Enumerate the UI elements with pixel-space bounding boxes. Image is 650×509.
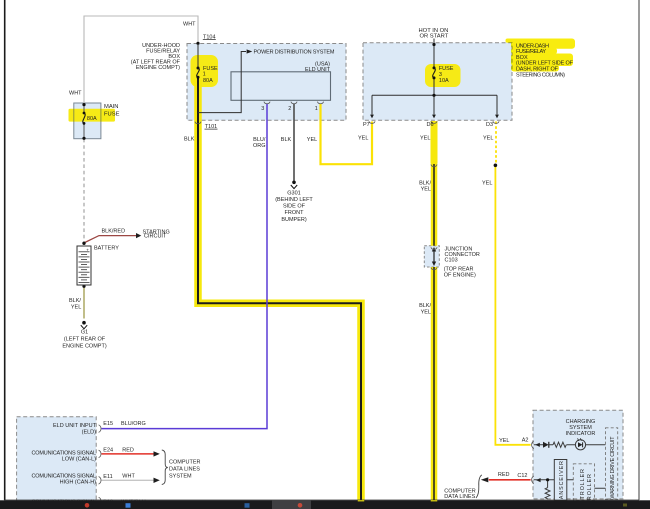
svg-text:SIDE OF: SIDE OF bbox=[283, 204, 306, 210]
svg-text:YEL: YEL bbox=[421, 309, 431, 315]
svg-text:COMUNICATIONS SIGNAL: COMUNICATIONS SIGNAL bbox=[32, 473, 97, 479]
svg-text:YEL: YEL bbox=[358, 136, 368, 142]
svg-text:DATA LINES: DATA LINES bbox=[444, 494, 475, 500]
svg-text:BLU/ORG: BLU/ORG bbox=[121, 421, 146, 427]
svg-text:BUMPER): BUMPER) bbox=[281, 217, 307, 223]
svg-text:(ELD): (ELD) bbox=[82, 429, 97, 435]
svg-text:BLK/: BLK/ bbox=[69, 298, 81, 304]
svg-text:YEL: YEL bbox=[420, 136, 430, 142]
svg-text:YEL: YEL bbox=[483, 136, 493, 142]
svg-text:3: 3 bbox=[261, 106, 264, 112]
svg-text:D6: D6 bbox=[427, 122, 434, 128]
svg-text:WHT: WHT bbox=[122, 473, 135, 479]
svg-text:E15: E15 bbox=[103, 421, 113, 427]
svg-text:(LEFT REAR OF: (LEFT REAR OF bbox=[64, 336, 106, 342]
svg-text:POWER DISTRIBUTION SYSTEM: POWER DISTRIBUTION SYSTEM bbox=[254, 49, 335, 55]
svg-text:+: + bbox=[86, 248, 89, 253]
svg-text:ENGINE COMPT): ENGINE COMPT) bbox=[136, 65, 180, 71]
svg-text:P7: P7 bbox=[363, 122, 370, 128]
svg-text:BLK: BLK bbox=[184, 137, 195, 143]
svg-text:D3: D3 bbox=[486, 122, 493, 128]
svg-text:E11: E11 bbox=[103, 474, 112, 480]
svg-text:80A: 80A bbox=[87, 116, 97, 122]
svg-text:(BEHIND LEFT: (BEHIND LEFT bbox=[275, 197, 313, 203]
svg-text:RED: RED bbox=[498, 472, 510, 478]
svg-text:10A: 10A bbox=[439, 78, 449, 84]
svg-text:STEERING COLUMN): STEERING COLUMN) bbox=[516, 72, 565, 78]
svg-text:COMPUTER: COMPUTER bbox=[169, 459, 201, 465]
svg-text:SYSTEM: SYSTEM bbox=[169, 474, 192, 480]
svg-text:1: 1 bbox=[203, 71, 206, 77]
svg-text:RED: RED bbox=[122, 447, 134, 453]
svg-text:YEL: YEL bbox=[482, 181, 492, 187]
svg-text:INDICATOR: INDICATOR bbox=[566, 431, 596, 437]
svg-text:ORG: ORG bbox=[253, 143, 266, 149]
svg-text:DATA LINES: DATA LINES bbox=[169, 466, 200, 472]
svg-text:YEL: YEL bbox=[307, 137, 317, 143]
svg-text:C103: C103 bbox=[445, 258, 458, 264]
svg-text:WARNING DRIVE CIRCUIT: WARNING DRIVE CIRCUIT bbox=[610, 436, 616, 499]
svg-text:YEL: YEL bbox=[71, 304, 81, 310]
svg-text:A2: A2 bbox=[522, 437, 529, 443]
svg-text:E24: E24 bbox=[103, 448, 113, 454]
svg-text:WHT: WHT bbox=[69, 91, 82, 97]
svg-text:OR START: OR START bbox=[420, 33, 449, 39]
svg-text:WHT: WHT bbox=[183, 22, 196, 28]
svg-text:2: 2 bbox=[288, 106, 291, 112]
svg-text:ELD UNIT: ELD UNIT bbox=[305, 67, 331, 73]
svg-text:ENGINE COMPT): ENGINE COMPT) bbox=[62, 343, 106, 349]
svg-text:80A: 80A bbox=[203, 78, 213, 84]
svg-text:G301: G301 bbox=[287, 190, 300, 196]
svg-text:G1: G1 bbox=[81, 330, 88, 336]
svg-text:BLK/: BLK/ bbox=[419, 303, 431, 309]
svg-text:COMUNICATIONS SIGNAL: COMUNICATIONS SIGNAL bbox=[32, 450, 97, 456]
svg-text:FRONT: FRONT bbox=[285, 210, 305, 216]
svg-text:ELD UNIT INPUT: ELD UNIT INPUT bbox=[53, 423, 97, 429]
svg-text:YEL: YEL bbox=[421, 187, 431, 193]
svg-text:OF ENGINE): OF ENGINE) bbox=[444, 273, 476, 279]
svg-text:1: 1 bbox=[315, 106, 318, 112]
svg-text:YEL: YEL bbox=[499, 438, 509, 444]
svg-text:(TOP REAR: (TOP REAR bbox=[444, 266, 474, 272]
svg-text:C12: C12 bbox=[517, 473, 527, 479]
svg-text:BLK: BLK bbox=[281, 137, 292, 143]
svg-text:BATTERY: BATTERY bbox=[94, 246, 119, 252]
svg-text:CIRCUIT: CIRCUIT bbox=[144, 234, 167, 240]
svg-text:BLK/RED: BLK/RED bbox=[102, 228, 126, 234]
svg-text:HIGH (CAN-H): HIGH (CAN-H) bbox=[60, 480, 97, 486]
svg-text:LOW (CAN-L): LOW (CAN-L) bbox=[62, 456, 96, 462]
svg-text:MAIN: MAIN bbox=[104, 104, 119, 110]
svg-text:FUSE: FUSE bbox=[104, 111, 120, 117]
